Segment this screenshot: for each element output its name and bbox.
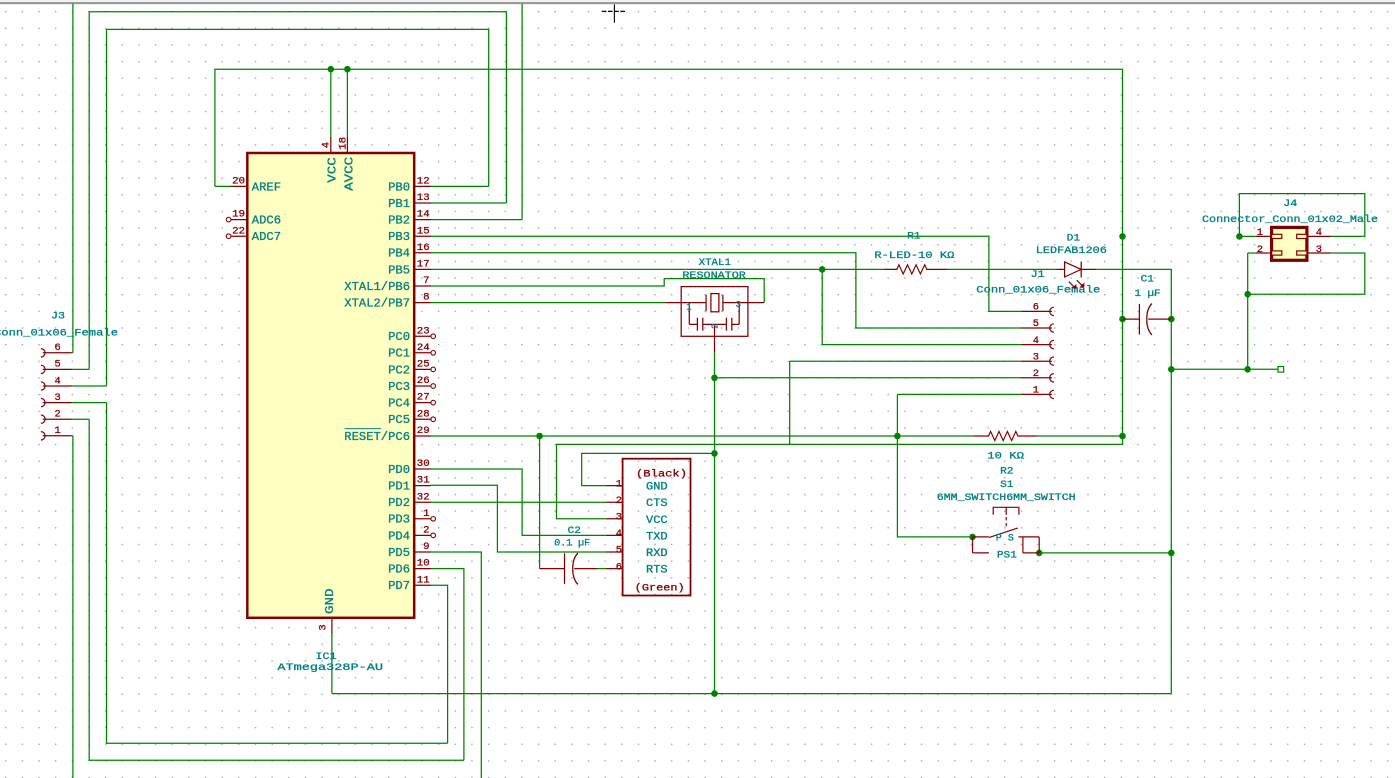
pin 4 VCC [330,137,332,153]
svg-text:J1: J1 [1031,270,1045,281]
svg-text:4: 4 [616,528,622,540]
svg-text:10: 10 [417,558,430,570]
wire PD0 to TXD [431,469,607,535]
wire PB2 riser to top edge [521,4,523,220]
junction RESET/J1.1 node [894,433,901,440]
svg-text:2: 2 [1033,368,1039,380]
wire GND net resonator to J1.2 [715,377,1023,379]
svg-text:6: 6 [616,561,622,573]
svg-text:1: 1 [616,478,622,490]
svg-text:16: 16 [417,242,430,254]
svg-text:R-LED-10 KΩ: R-LED-10 KΩ [874,251,954,262]
svg-text:5: 5 [54,359,60,371]
pin 30 PD0 [414,468,431,470]
pin 4 J3 [41,382,45,390]
svg-text:P: P [996,534,1002,545]
wire J4 pin2 drop [1248,253,1256,369]
pin 3 GND [331,618,333,634]
svg-text:D1: D1 [1067,233,1080,244]
pin 9 PD5 [414,551,431,553]
pin 26 PC3 [414,385,431,387]
wire J1.3 to VCC net [790,361,1022,444]
junction C1 right node [1168,316,1175,323]
wire J4 pin3 loop [1248,253,1365,294]
wire net RESET R2 right to VCC riser [1037,435,1123,437]
svg-text:PD6: PD6 [388,563,410,577]
svg-text:3: 3 [616,512,622,524]
svg-text:6: 6 [1033,302,1039,314]
junction S1 right node [1036,550,1043,557]
pin 17 PB5 [414,268,431,270]
svg-text:3: 3 [317,624,329,630]
wire J3.6 riser to top edge [72,4,74,353]
svg-text:PB5: PB5 [388,263,410,277]
svg-text:AVCC: AVCC [342,157,356,191]
wire RESET to C2 left [539,436,541,569]
svg-text:2: 2 [711,323,721,328]
pin 3 J4 right [1307,252,1331,254]
pin 2 J3 [41,415,45,423]
svg-text:11: 11 [417,574,430,586]
LED D1 emission arrows [1069,280,1083,288]
pin 1 J1 [1050,390,1054,398]
svg-text:15: 15 [417,225,430,237]
svg-text:RXD: RXD [646,548,668,560]
wire AVCC pin drop [346,69,348,138]
junction J4 pin1 node [1236,233,1243,240]
svg-text:XTAL2/PB7: XTAL2/PB7 [344,297,410,311]
svg-text:Conn_01x06_Female: Conn_01x06_Female [0,328,118,340]
wire PB2 to riser [431,219,523,221]
svg-text:4: 4 [54,375,60,387]
pin 6 J3 [41,349,45,357]
pin 20 AREF [231,185,247,187]
wire J4 pin4 loop [1239,194,1364,237]
wire PD5 drop off bottom [431,552,482,778]
pin 23 PC0 [414,335,431,337]
wire VCC net J4 to FTDI VCC [557,436,1123,519]
wire RESET to S1 left [897,436,972,537]
wire FTDI GND loop [582,453,715,485]
pin 24 PC1 [414,352,431,354]
pin 5 FTDI RXD [607,551,623,553]
svg-text:CTS: CTS [646,498,668,510]
svg-text:32: 32 [417,491,430,503]
switch S1 pins [973,537,989,553]
wire J1.1 to RESET net [897,394,1022,436]
svg-text:PD2: PD2 [388,496,410,510]
svg-text:4: 4 [321,142,333,148]
pin 3 FTDI VCC [607,518,623,520]
wire GND stub row right [1171,368,1278,370]
pin 29 RESET/PC6 [414,435,431,437]
svg-text:PC5: PC5 [388,413,410,427]
pin 2 J4 left [1256,252,1272,254]
pin 13 PB1 [414,202,431,204]
svg-text:PB3: PB3 [388,230,410,244]
svg-text:3: 3 [54,392,60,404]
connector J4 Connector_Conn_01x02_Male body [1272,227,1307,260]
svg-text:PB0: PB0 [388,180,410,194]
svg-text:TXD: TXD [646,531,668,543]
junction R2/VCC node [1119,433,1126,440]
pin 2 PD4 [414,534,431,536]
pin 32 PD2 [414,501,431,503]
svg-text:28: 28 [417,408,430,420]
pin 1 J4 left [1256,235,1272,237]
pin 18 AVCC [346,137,348,153]
wire PD6 drop [431,569,464,761]
svg-text:6MM_SWITCH6MM_SWITCH: 6MM_SWITCH6MM_SWITCH [937,493,1076,504]
svg-text:ADC6: ADC6 [252,214,281,228]
wire AREF link [215,185,231,187]
pin 4 J4 right [1307,235,1331,237]
wire J3.6 link [72,352,73,354]
svg-text:XTAL1: XTAL1 [699,258,731,269]
connector FTDI header body [623,459,691,596]
switch S1 arm [989,528,1018,538]
junction S1 left node [969,534,976,541]
junction GND row left node [1168,366,1175,373]
resonator XTAL1 body box [681,287,748,337]
wire GND drop resonator to bottom rail [714,378,716,694]
svg-text:12: 12 [417,176,430,188]
svg-text:4: 4 [1316,227,1322,239]
pin 28 PC5 [414,418,431,420]
wire PD1 to RXD [431,485,607,552]
svg-text:3: 3 [1316,244,1322,256]
junction RESET/C2 node [536,433,543,440]
wire J3.3 link [72,402,107,404]
svg-text:2: 2 [616,495,622,507]
svg-text:5: 5 [1033,318,1039,330]
wire SCK branch to J1.4 [822,269,1022,344]
junction SCK/R1 node [819,266,826,273]
resonator internal capacitors [689,303,739,331]
svg-text:26: 26 [417,375,430,387]
svg-text:4: 4 [1033,335,1039,347]
svg-text:8: 8 [423,292,429,304]
wire J3.2 link [72,418,90,420]
pin 5 J1 [1050,324,1054,332]
svg-text:1: 1 [423,508,429,520]
wire GND bottom rail [332,693,1171,695]
pin 27 PC4 [414,402,431,404]
wire J4 pin1 link [1239,235,1256,237]
svg-text:C1: C1 [1141,275,1154,286]
svg-text:30: 30 [417,458,430,470]
svg-text:24: 24 [417,342,430,354]
svg-text:C2: C2 [568,526,581,537]
svg-text:PS1: PS1 [997,550,1017,561]
wire D1 to C1 right [1097,269,1172,319]
wire MCU GND pin drop [331,634,333,694]
wire PB1 to loop [431,202,507,204]
svg-text:20: 20 [232,176,245,188]
svg-text:7: 7 [423,275,429,287]
junction VCC/J4 corner node [1119,233,1126,240]
svg-text:VCC: VCC [326,157,340,183]
svg-text:XTAL1/PB6: XTAL1/PB6 [344,280,410,294]
svg-text:LEDFAB1206: LEDFAB1206 [1036,246,1107,257]
wire GND right column [1170,319,1172,693]
svg-text:PB1: PB1 [388,197,410,211]
svg-text:PC0: PC0 [388,330,410,344]
pin 11 PD7 [414,584,431,586]
pin 3 J1 [1050,357,1054,365]
svg-text:AREF: AREF [252,180,281,194]
svg-text:PD4: PD4 [388,529,410,543]
wire R1 to D1 [948,268,1057,270]
svg-text:PC2: PC2 [388,363,410,377]
svg-text:R2: R2 [1000,467,1013,478]
svg-text:31: 31 [417,475,430,487]
svg-text:RTS: RTS [646,565,668,577]
wire VCC rail top with AREF branch [215,69,1123,236]
wire net PD2 to CTS [431,501,607,503]
svg-text:1: 1 [686,303,691,313]
wire J3.1 drop off bottom [72,436,74,778]
svg-text:22: 22 [232,225,245,237]
junction FTDI GND node [711,450,718,457]
resonator pin 3 lead [748,302,764,304]
resistor R1 [884,265,948,274]
svg-text:0.1 µF: 0.1 µF [554,539,590,550]
wire J3.5 link [72,368,90,370]
wire C2 right to RTS [597,568,607,570]
svg-text:9: 9 [423,541,429,553]
wire PB0 to loop [431,185,489,187]
resistor R2 [974,431,1037,440]
wire XTAL2/PB7 to resonator pin1 [431,302,667,304]
wire J3.4 riser / top loop to PB0 [107,29,489,386]
svg-text:5: 5 [616,545,622,557]
pin 14 PB2 [414,219,431,221]
resonator pin 2 lead [714,324,716,352]
junction VCC pin [328,66,335,73]
svg-text:J4: J4 [1283,199,1297,210]
pin 7 XTAL1/PB6 [414,285,431,287]
pin 1 FTDI GND [607,485,623,487]
wire J3.5 riser / top loop to PB1 [89,12,506,370]
IC IC1 ATmega328P-AU body [247,153,414,618]
pin 16 PB4 [414,252,431,254]
pin 25 PC2 [414,368,431,370]
switch S1 6MM_SWITCH [993,507,1019,514]
svg-text:RESET/PC6: RESET/PC6 [344,430,410,444]
svg-text:18: 18 [338,137,350,150]
junction S1/GND column node [1168,550,1175,557]
svg-text:(Black): (Black) [636,468,687,480]
junction J4 pin2 node [1244,291,1251,298]
cursor crosshair [613,4,615,22]
svg-text:23: 23 [417,325,430,337]
capacitor C1 [1123,304,1140,335]
wire XTAL1/PB6 to resonator pin3 [431,279,765,303]
svg-text:3: 3 [1033,351,1039,363]
svg-text:2: 2 [1257,244,1263,256]
wire VCC riser D1 column [1122,236,1124,436]
wire net RESET pin29 run [431,435,975,437]
svg-text:1 µF: 1 µF [1135,289,1161,300]
junction C1 left node [1119,316,1126,323]
svg-text:(Green): (Green) [635,582,685,594]
pin 2 J1 [1050,374,1054,382]
top toolbar edge [0,0,1395,2]
svg-text:J3: J3 [51,311,65,322]
svg-text:ATmega328P-AU: ATmega328P-AU [277,663,383,674]
resonator crystal element [666,295,748,311]
svg-text:PC3: PC3 [388,380,410,394]
svg-text:IC1: IC1 [316,652,337,663]
svg-text:PD3: PD3 [388,513,410,527]
svg-text:PC4: PC4 [388,397,410,411]
svg-text:1: 1 [1257,227,1263,239]
junction GND bottom rail node [711,690,718,697]
wire net MOSI PB3 to J1.6 [431,236,1023,311]
pin 4 J1 [1050,340,1054,348]
svg-text:PB4: PB4 [388,247,410,261]
svg-text:ADC7: ADC7 [252,230,281,244]
pin 5 J3 [41,365,45,373]
pin 1 PD3 [414,518,431,520]
junction resonator GND node [711,375,718,382]
svg-text:2: 2 [54,409,60,421]
pin 10 PD6 [414,568,431,570]
wire VCC pin drop [330,69,332,138]
pin 6 J1 [1050,307,1054,315]
svg-text:GND: GND [323,589,337,615]
pin 1 J3 [41,432,45,440]
junction GND row node [1244,366,1251,373]
svg-text:PB2: PB2 [388,214,410,228]
diode D1 LEDFAB1206 [1056,262,1096,278]
svg-text:1: 1 [1033,385,1039,397]
pin 19 ADC6 [231,219,247,221]
svg-text:29: 29 [417,425,430,437]
wire net SCK PB5 to R1 [431,268,884,270]
wire J3.2 drop to bottom [89,419,464,760]
wire J3.4 link [72,385,107,387]
svg-text:GND: GND [646,482,668,494]
svg-text:PC1: PC1 [388,347,410,361]
wire J3.1 link [72,435,73,437]
svg-text:Connector_Conn_01x02_Male: Connector_Conn_01x02_Male [1202,214,1378,226]
svg-text:25: 25 [417,359,430,371]
wire net MISO PB4 to J1.5 [431,253,1023,328]
svg-text:14: 14 [417,209,430,221]
pin 8 XTAL2/PB7 [414,302,431,304]
wire S1 right to GND column [1039,552,1171,554]
junction AVCC pin [344,66,351,73]
svg-text:RESONATOR: RESONATOR [682,271,745,282]
svg-text:17: 17 [417,259,430,271]
svg-text:1: 1 [54,425,60,437]
svg-text:VCC: VCC [646,515,668,527]
pin 2 FTDI CTS [607,501,623,503]
pin 12 PB0 [414,185,431,187]
pin 3 J3 [41,398,45,406]
pin 4 FTDI TXD [607,534,623,536]
svg-text:19: 19 [232,209,245,221]
svg-text:S: S [1008,534,1014,545]
svg-text:S1: S1 [1000,480,1013,491]
pin 31 PD1 [414,485,431,487]
svg-text:PD1: PD1 [388,480,410,494]
wire J3.3 drop to bottom [107,403,448,744]
svg-text:27: 27 [417,392,430,404]
wire PD7 drop [431,585,448,743]
svg-text:2: 2 [423,525,429,537]
svg-text:13: 13 [417,192,430,204]
capacitor C2 [540,553,565,584]
pin 6 FTDI RTS [607,568,623,570]
unconnected wire end square [1278,367,1284,373]
svg-text:6: 6 [54,342,60,354]
svg-text:PD7: PD7 [388,579,410,593]
svg-text:PD0: PD0 [388,463,410,477]
svg-text:R1: R1 [907,231,920,242]
wire resonator pin2 down [714,352,716,377]
pin 15 PB3 [414,235,431,237]
svg-text:3: 3 [736,300,741,310]
svg-text:10 KΩ: 10 KΩ [987,452,1024,463]
svg-text:PD5: PD5 [388,546,410,560]
pin 22 ADC7 [231,235,247,237]
